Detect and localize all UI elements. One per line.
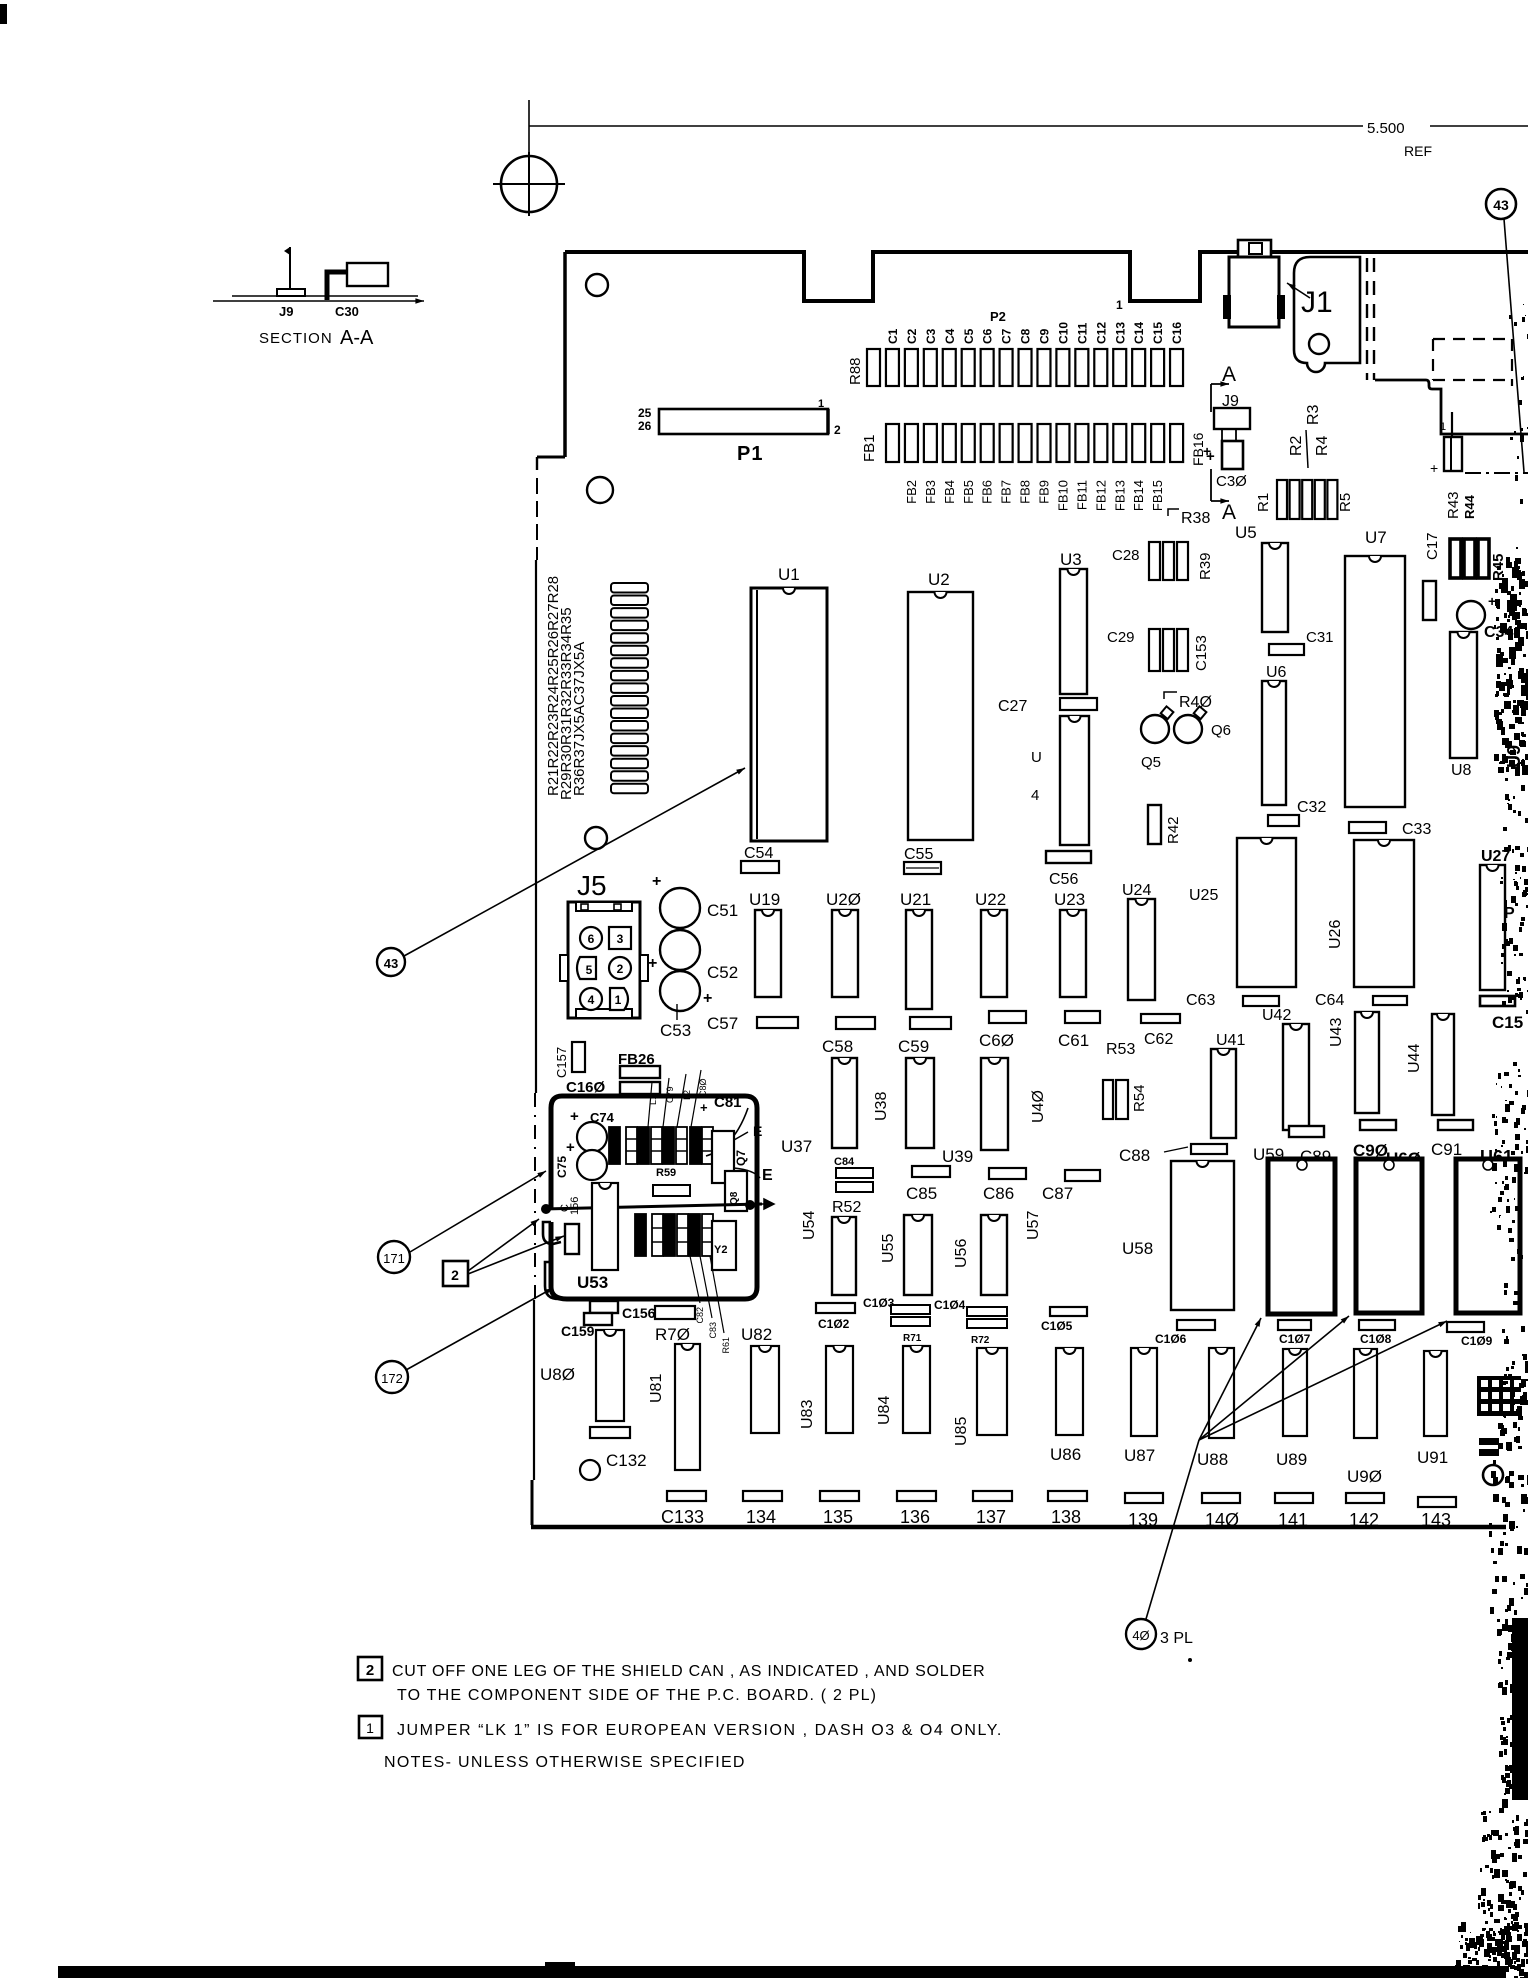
svg-text:J9: J9 <box>279 304 293 319</box>
svg-text:1: 1 <box>1440 421 1446 433</box>
svg-text:C61: C61 <box>1058 1031 1089 1050</box>
svg-text:U44: U44 <box>1406 1044 1423 1073</box>
svg-text:C16: C16 <box>1170 322 1184 344</box>
resistor R38 label <box>1168 509 1179 516</box>
svg-text:U24: U24 <box>1122 882 1151 899</box>
resistor network R45 <box>1450 539 1461 578</box>
svg-text:FB8: FB8 <box>1018 480 1033 504</box>
svg-text:FB14: FB14 <box>1131 480 1146 511</box>
capacitor C133 <box>667 1491 706 1501</box>
svg-text:U56: U56 <box>953 1239 970 1268</box>
svg-text:U19: U19 <box>749 890 780 909</box>
transistor Q7 <box>712 1131 734 1183</box>
balloon 43 (top right) <box>1486 189 1516 219</box>
small connector lower right <box>1444 437 1462 471</box>
svg-text:R38: R38 <box>1181 510 1210 527</box>
svg-text:+: + <box>570 1108 579 1125</box>
svg-text:+: + <box>1203 443 1211 459</box>
svg-text:+: + <box>703 990 712 1007</box>
svg-text:C1Ø9: C1Ø9 <box>1461 1334 1493 1348</box>
svg-text:FB3: FB3 <box>923 480 938 504</box>
svg-text:R4: R4 <box>1314 435 1331 456</box>
svg-text:26: 26 <box>638 419 652 433</box>
svg-text:C153: C153 <box>1193 635 1210 671</box>
svg-text:156: 156 <box>569 1197 581 1215</box>
svg-text:+: + <box>1430 460 1438 476</box>
IC U55 <box>832 1217 856 1295</box>
bottom black bar <box>58 1966 1506 1978</box>
svg-text:C31: C31 <box>1306 629 1334 646</box>
svg-text:JUMPER “LK 1” IS FOR EUROP: JUMPER “LK 1” IS FOR EUROPEAN VERSION , … <box>397 1722 1003 1739</box>
capacitor 135 <box>820 1491 859 1501</box>
IC U38 <box>832 1058 857 1148</box>
capacitor C105 <box>1050 1307 1087 1316</box>
svg-text:R43: R43 <box>1445 491 1462 519</box>
capacitor C52 <box>660 930 700 970</box>
svg-text:C4: C4 <box>943 328 957 344</box>
svg-text:Q8: Q8 <box>729 1191 740 1205</box>
svg-text:CUT OFF ONE LEG OF THE SHIELD: CUT OFF ONE LEG OF THE SHIELD CAN , AS I… <box>392 1663 985 1680</box>
svg-text:+: + <box>700 1100 708 1115</box>
svg-text:FB24: FB24 <box>610 1140 620 1162</box>
middle bar inside can <box>653 1185 690 1196</box>
svg-text:C1Ø6: C1Ø6 <box>1155 1332 1187 1346</box>
IC U57 <box>981 1215 1007 1295</box>
svg-text:SECTION: SECTION <box>259 330 333 347</box>
svg-text:R72: R72 <box>971 1335 990 1346</box>
svg-text:U38: U38 <box>873 1092 890 1121</box>
registration target crosshair <box>501 156 557 212</box>
svg-text:C10: C10 <box>1056 322 1070 344</box>
svg-text:U84: U84 <box>876 1396 893 1425</box>
svg-text:C1: C1 <box>886 328 900 344</box>
capacitor C34 <box>1457 601 1485 629</box>
ferrite bead row FB1-FB16 <box>886 424 899 462</box>
section A-A pin J9 <box>289 247 291 293</box>
svg-text:C12: C12 <box>1094 322 1108 344</box>
shield can outline <box>551 1096 757 1299</box>
svg-text:U26: U26 <box>1327 920 1344 949</box>
resistor R40 label <box>1164 692 1177 699</box>
svg-text:U2Ø: U2Ø <box>826 890 861 909</box>
capacitor C63 <box>1243 996 1279 1006</box>
svg-text:C16Ø: C16Ø <box>566 1079 606 1096</box>
capacitor C59 <box>910 1017 951 1029</box>
svg-text:C81: C81 <box>714 1094 742 1111</box>
svg-text:U4Ø: U4Ø <box>1030 1090 1047 1123</box>
svg-text:U6: U6 <box>1266 664 1287 681</box>
hairlines to labels below can <box>690 1256 700 1303</box>
svg-text:2: 2 <box>451 1267 459 1283</box>
capacitor C33 <box>1349 822 1386 833</box>
svg-text:C86: C86 <box>983 1184 1014 1203</box>
scanner noise right edge <box>1514 561 1517 564</box>
svg-text:U9Ø: U9Ø <box>1347 1467 1382 1486</box>
svg-text:R71: R71 <box>903 1333 922 1344</box>
svg-text:U23: U23 <box>1054 890 1085 909</box>
svg-text:P1: P1 <box>737 443 763 465</box>
svg-text:E: E <box>762 1167 773 1184</box>
svg-text:14Ø: 14Ø <box>1205 1510 1239 1530</box>
svg-text:141: 141 <box>1278 1510 1308 1530</box>
svg-text:FB15: FB15 <box>1150 480 1165 511</box>
svg-text:Q5: Q5 <box>1141 754 1161 771</box>
dimension line 5.500 REF <box>529 125 1363 127</box>
svg-text:U58: U58 <box>1122 1239 1153 1258</box>
svg-text:U25: U25 <box>1189 887 1218 904</box>
svg-text:FB10: FB10 <box>1055 480 1070 511</box>
capacitor C109 <box>1447 1322 1484 1332</box>
svg-text:C29: C29 <box>1107 629 1135 646</box>
svg-text:C1Ø2: C1Ø2 <box>818 1317 850 1331</box>
svg-text:C32: C32 <box>1297 799 1326 816</box>
balloon 172 <box>376 1361 408 1393</box>
svg-text:1: 1 <box>818 398 824 410</box>
svg-text:U21: U21 <box>900 890 931 909</box>
svg-text:C62: C62 <box>1144 1031 1173 1048</box>
svg-text:E: E <box>753 1123 762 1139</box>
svg-text:143: 143 <box>1421 1510 1451 1530</box>
svg-text:U8: U8 <box>1451 762 1472 779</box>
capacitor C107 <box>1278 1320 1311 1330</box>
svg-text:U41: U41 <box>1216 1032 1245 1049</box>
svg-text:FB5: FB5 <box>961 480 976 504</box>
right connector block outline <box>1375 380 1528 434</box>
svg-text:C57: C57 <box>707 1014 738 1033</box>
small caps row 2 inside can <box>635 1214 646 1256</box>
board outline: top edge with notches <box>565 252 1528 301</box>
svg-text:R61: R61 <box>721 1337 731 1354</box>
svg-text:2: 2 <box>366 1662 374 1679</box>
board outline: left edge <box>563 252 567 457</box>
svg-text:C6: C6 <box>981 328 995 344</box>
svg-text:FB1: FB1 <box>861 434 878 462</box>
svg-text:U3: U3 <box>1060 550 1082 569</box>
svg-text:C9: C9 <box>1038 328 1052 344</box>
svg-text:C64: C64 <box>1315 992 1344 1009</box>
connector P1 <box>659 409 828 434</box>
capacitor 141 <box>1275 1493 1313 1503</box>
svg-text:U55: U55 <box>880 1234 897 1263</box>
svg-text:C2: C2 <box>905 328 919 344</box>
capacitor C17 <box>1423 581 1436 620</box>
svg-text:U8Ø: U8Ø <box>540 1365 575 1384</box>
board outline: bottom edge <box>531 1525 1506 1530</box>
svg-text:2: 2 <box>834 423 841 437</box>
svg-text:U88: U88 <box>1197 1450 1228 1469</box>
svg-text:C33: C33 <box>1402 821 1431 838</box>
capacitor C31 <box>1269 644 1304 655</box>
svg-text:R7Ø: R7Ø <box>655 1325 690 1344</box>
svg-text:2: 2 <box>617 962 624 976</box>
svg-text:L2: L2 <box>682 1090 692 1100</box>
svg-text:J1: J1 <box>1301 286 1333 319</box>
svg-text:C132: C132 <box>606 1451 647 1470</box>
svg-text:C51: C51 <box>707 901 738 920</box>
svg-text:C1Ø5: C1Ø5 <box>1041 1319 1073 1333</box>
transistor Q6 <box>1174 715 1202 743</box>
capacitor C32 <box>1268 815 1299 826</box>
svg-text:U5: U5 <box>1235 523 1257 542</box>
IC U39 <box>906 1058 934 1148</box>
svg-text:U42: U42 <box>1262 1007 1291 1024</box>
svg-text:C27: C27 <box>998 698 1027 715</box>
svg-text:C133: C133 <box>661 1507 704 1527</box>
capacitor C87 <box>1065 1170 1100 1181</box>
svg-text:A: A <box>1222 501 1236 524</box>
svg-text:C59: C59 <box>898 1037 929 1056</box>
capacitor row R88, C1-C16 <box>867 349 880 386</box>
svg-text:+: + <box>652 873 661 890</box>
balloon 171 <box>378 1241 410 1273</box>
capacitor C132 <box>580 1460 600 1480</box>
svg-text:FB12: FB12 <box>1093 480 1108 511</box>
svg-text:U85: U85 <box>953 1417 970 1446</box>
svg-text:+: + <box>566 1139 575 1156</box>
svg-text:U83: U83 <box>799 1400 816 1429</box>
capacitor 139 <box>1125 1493 1163 1503</box>
svg-text:C91: C91 <box>1431 1140 1462 1159</box>
crystal Y2 <box>712 1221 736 1270</box>
note box 2 <box>358 1657 382 1680</box>
svg-text:FB6: FB6 <box>980 480 995 504</box>
IC U90 <box>1354 1349 1377 1438</box>
svg-text:C88: C88 <box>1119 1146 1150 1165</box>
svg-text:137: 137 <box>976 1507 1006 1527</box>
resistor R54 <box>1103 1080 1113 1119</box>
svg-text:C52: C52 <box>707 963 738 982</box>
svg-text:1: 1 <box>366 1720 374 1736</box>
note box 1 <box>359 1716 382 1738</box>
capacitor C159 <box>590 1301 618 1313</box>
capacitor 136 <box>897 1491 936 1501</box>
svg-text:U89: U89 <box>1276 1450 1307 1469</box>
capacitor C85 <box>912 1166 950 1177</box>
svg-text:U: U <box>1031 749 1042 766</box>
black strip right <box>1512 1618 1528 1800</box>
svg-text:C84: C84 <box>834 1156 855 1168</box>
svg-text:C15: C15 <box>1492 1013 1523 1032</box>
svg-text:FB4: FB4 <box>942 480 957 504</box>
capacitor C90 <box>1360 1120 1396 1130</box>
capacitor C58 <box>836 1017 875 1029</box>
svg-text:+: + <box>1488 593 1496 609</box>
svg-text:P: P <box>1504 905 1515 922</box>
shield can bottom-left leg (cut) <box>543 1222 567 1299</box>
svg-text:U54: U54 <box>801 1211 818 1240</box>
svg-text:C1Ø7: C1Ø7 <box>1279 1332 1311 1346</box>
svg-text:U86: U86 <box>1050 1445 1081 1464</box>
svg-text:R4Ø: R4Ø <box>1179 694 1212 711</box>
svg-text:U87: U87 <box>1124 1446 1155 1465</box>
IC U8 <box>1450 632 1477 758</box>
svg-text:U81: U81 <box>648 1374 665 1403</box>
svg-text:C58: C58 <box>822 1037 853 1056</box>
capacitor C60 <box>989 1011 1026 1023</box>
svg-text:FB2: FB2 <box>904 480 919 504</box>
capacitor C91 <box>1438 1120 1473 1130</box>
svg-text:C159: C159 <box>561 1323 595 1339</box>
svg-text:C15: C15 <box>1151 322 1165 344</box>
svg-text:U1: U1 <box>778 565 800 584</box>
svg-text:U37: U37 <box>781 1137 812 1156</box>
svg-text:R39: R39 <box>1197 552 1214 580</box>
resistor R42 <box>1148 805 1161 844</box>
svg-text:Q7: Q7 <box>734 1150 748 1166</box>
svg-text:R88: R88 <box>847 357 864 385</box>
svg-text:3: 3 <box>617 932 624 946</box>
capacitor C53 <box>660 971 700 1011</box>
svg-text:C83: C83 <box>708 1322 718 1339</box>
capacitor 134 <box>743 1491 782 1501</box>
svg-text:25: 25 <box>638 406 652 420</box>
svg-text:U2: U2 <box>928 570 950 589</box>
svg-text:R54: R54 <box>1131 1084 1148 1112</box>
shield can mid wire (cut leg line) <box>543 1204 762 1209</box>
svg-text:C79: C79 <box>665 1086 675 1103</box>
svg-text:4: 4 <box>1031 787 1039 804</box>
svg-text:139: 139 <box>1128 1510 1158 1530</box>
svg-text:C82: C82 <box>695 1307 705 1324</box>
svg-text:R2: R2 <box>1288 435 1305 456</box>
capacitor C108 <box>1359 1320 1395 1330</box>
svg-text:C56: C56 <box>1049 871 1078 888</box>
svg-text:6: 6 <box>588 932 595 946</box>
svg-text:C157: C157 <box>554 1047 569 1078</box>
svg-text:C3: C3 <box>924 328 938 344</box>
section A-A board line <box>232 295 418 297</box>
svg-text:4Ø: 4Ø <box>1132 1628 1149 1643</box>
IC U53 <box>592 1183 618 1270</box>
svg-text:J5: J5 <box>577 870 607 901</box>
power jack on top edge <box>1238 240 1271 257</box>
svg-text:FB9: FB9 <box>1037 480 1052 504</box>
svg-text:FB11: FB11 <box>1074 480 1089 510</box>
svg-text:R59: R59 <box>656 1167 676 1179</box>
capacitor C56 <box>1046 851 1091 863</box>
top-left scanner mark <box>0 4 7 24</box>
capacitor 138 <box>1048 1491 1087 1501</box>
svg-text:U91: U91 <box>1417 1448 1448 1467</box>
svg-text:C3Ø: C3Ø <box>1216 473 1247 490</box>
svg-text:U43: U43 <box>1328 1018 1345 1047</box>
IC U87 <box>1131 1348 1157 1436</box>
transistor Q5 <box>1141 715 1169 743</box>
svg-text:R44: R44 <box>1462 494 1477 519</box>
svg-text:43: 43 <box>1493 197 1509 213</box>
svg-text:Q6: Q6 <box>1211 722 1231 739</box>
capacitor 14&#216; <box>1202 1493 1240 1503</box>
svg-text:REF: REF <box>1404 143 1432 159</box>
capacitor C57 <box>757 1017 798 1028</box>
svg-text:1: 1 <box>615 993 622 1007</box>
capacitor C86 <box>989 1168 1026 1179</box>
svg-text:C53: C53 <box>660 1021 691 1040</box>
capacitor C62 <box>1141 1014 1180 1023</box>
svg-text:L1: L1 <box>648 1095 658 1105</box>
svg-text:138: 138 <box>1051 1507 1081 1527</box>
svg-text:C7: C7 <box>1000 328 1014 344</box>
transistor Q8 <box>725 1171 747 1211</box>
svg-text:R52: R52 <box>832 1199 861 1216</box>
resistors R1-R5 <box>1277 480 1287 519</box>
svg-text:U39: U39 <box>942 1147 973 1166</box>
svg-text:135: 135 <box>823 1507 853 1527</box>
svg-text:NOTES- UNLESS OTHERWISE SPEC: NOTES- UNLESS OTHERWISE SPECIFIED <box>384 1754 746 1771</box>
capacitor C102 <box>816 1303 855 1313</box>
mounting hole top-left <box>586 274 608 296</box>
svg-text:C55: C55 <box>904 846 933 863</box>
capacitor C89 <box>1289 1126 1324 1137</box>
svg-text:C14: C14 <box>1132 322 1146 344</box>
svg-text:C156: C156 <box>622 1305 656 1321</box>
balloon 40 3PL <box>1126 1619 1156 1649</box>
svg-text:C63: C63 <box>1186 992 1215 1009</box>
svg-text:C8: C8 <box>1019 328 1033 344</box>
hairlines to cap labels above can <box>648 1082 652 1127</box>
svg-text:Y2: Y2 <box>714 1244 727 1256</box>
IC U88 <box>1209 1348 1234 1438</box>
svg-text:C75: C75 <box>555 1156 569 1178</box>
svg-text:C1Ø4: C1Ø4 <box>934 1298 966 1312</box>
SMD block right <box>1477 1376 1521 1416</box>
svg-text:P2: P2 <box>990 309 1006 324</box>
capacitor 142 <box>1346 1493 1384 1503</box>
svg-text:R5: R5 <box>1337 493 1354 512</box>
svg-text:U22: U22 <box>975 890 1006 909</box>
svg-text:C30: C30 <box>335 304 359 319</box>
IC U40 <box>981 1058 1008 1150</box>
mounting hole bottom right <box>1483 1465 1503 1485</box>
J1 shield dashed lines <box>1366 258 1368 380</box>
svg-text:1: 1 <box>1116 298 1123 312</box>
svg-text:U9: U9 <box>1504 745 1524 768</box>
svg-text:C1Ø3: C1Ø3 <box>863 1296 895 1310</box>
connector J1 <box>1294 257 1360 372</box>
svg-text:C11: C11 <box>1075 322 1089 344</box>
svg-text:5.500: 5.500 <box>1367 120 1405 137</box>
capacitor C61 <box>1065 1011 1100 1023</box>
svg-text:3 PL: 3 PL <box>1160 1630 1193 1647</box>
IC U91 <box>1424 1351 1447 1436</box>
svg-text:136: 136 <box>900 1507 930 1527</box>
mounting hole mid-left <box>585 827 607 849</box>
section A-A capacitor C30 <box>327 272 347 300</box>
svg-text:C5: C5 <box>962 328 976 344</box>
svg-text:172: 172 <box>381 1371 403 1386</box>
svg-text:C85: C85 <box>906 1184 937 1203</box>
svg-text:R3: R3 <box>1305 404 1322 425</box>
svg-text:142: 142 <box>1349 1510 1379 1530</box>
svg-text:C28: C28 <box>1112 547 1140 564</box>
svg-text:R42: R42 <box>1165 816 1182 844</box>
svg-text:U57: U57 <box>1025 1211 1042 1240</box>
svg-text:C8Ø: C8Ø <box>698 1078 708 1097</box>
svg-text:+: + <box>648 955 657 972</box>
IC U56 <box>904 1215 932 1295</box>
svg-text:171: 171 <box>383 1251 405 1266</box>
svg-text:C87: C87 <box>1042 1184 1073 1203</box>
svg-text:FB25: FB25 <box>636 1231 646 1253</box>
svg-text:R1: R1 <box>1255 493 1272 512</box>
svg-text:R53: R53 <box>1106 1041 1135 1058</box>
capacitor C106 <box>1177 1320 1215 1330</box>
svg-text:TO THE COMPONENT SIDE OF TH: TO THE COMPONENT SIDE OF THE P.C. BOARD.… <box>397 1687 877 1704</box>
balloon 2 (square) <box>443 1261 468 1286</box>
small caps row inside can (FB24 etc) <box>609 1127 620 1164</box>
svg-text:FB13: FB13 <box>1112 480 1127 511</box>
svg-text:C17: C17 <box>1424 532 1441 560</box>
